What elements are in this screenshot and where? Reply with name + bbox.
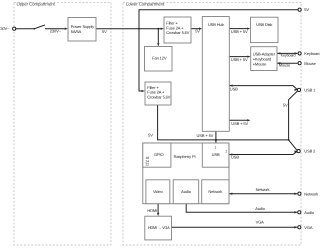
svg-text:USB + 5V: USB + 5V xyxy=(197,133,214,138)
svg-text:USB + 5V: USB + 5V xyxy=(231,57,248,62)
svg-text:Crowbar 5.6V: Crowbar 5.6V xyxy=(166,30,189,35)
svg-text:HDMI: HDMI xyxy=(147,208,157,213)
svg-text:Audio: Audio xyxy=(181,189,192,194)
svg-text:Raspberry Pi: Raspberry Pi xyxy=(174,154,196,159)
svg-text:Network: Network xyxy=(208,189,222,194)
svg-text:USB Hub: USB Hub xyxy=(208,22,225,27)
svg-text:Audio: Audio xyxy=(304,210,315,215)
svg-text:5V: 5V xyxy=(283,103,288,108)
svg-text:5V: 5V xyxy=(102,29,107,34)
svg-text:USB + 5V: USB + 5V xyxy=(231,121,248,126)
svg-text:USB: USB xyxy=(230,86,238,91)
svg-text:5V: 5V xyxy=(195,29,200,34)
svg-text:22: 22 xyxy=(146,162,150,166)
svg-text:Lower Compartment: Lower Compartment xyxy=(126,1,165,6)
svg-text:Network: Network xyxy=(256,187,270,192)
svg-text:USB Disk: USB Disk xyxy=(256,22,272,27)
svg-text:USB + 5V: USB + 5V xyxy=(231,29,248,34)
svg-text:USB: USB xyxy=(212,152,220,157)
svg-text:230V~: 230V~ xyxy=(0,26,10,31)
svg-text:Crowbar 5.6V: Crowbar 5.6V xyxy=(147,95,170,100)
svg-text:Keyboard: Keyboard xyxy=(281,53,296,58)
svg-text:2: 2 xyxy=(225,149,227,153)
svg-text:USB: USB xyxy=(231,155,239,160)
svg-text:5V: 5V xyxy=(304,7,309,12)
svg-text:USB 2: USB 2 xyxy=(304,149,316,154)
svg-text:+Mouse: +Mouse xyxy=(253,62,268,67)
svg-text:VGA: VGA xyxy=(256,220,265,225)
svg-text:VGA: VGA xyxy=(304,225,313,230)
svg-text:Network: Network xyxy=(304,191,318,196)
svg-text:GPIO: GPIO xyxy=(154,152,164,157)
svg-text:USB 1: USB 1 xyxy=(304,88,316,93)
svg-text:Video: Video xyxy=(153,189,163,194)
svg-text:HDMI → VGA: HDMI → VGA xyxy=(148,225,170,230)
svg-text:Mouse: Mouse xyxy=(279,63,291,68)
svg-text:Keyboard: Keyboard xyxy=(304,51,320,56)
svg-text:1: 1 xyxy=(215,145,217,149)
svg-text:Upper Compartment: Upper Compartment xyxy=(17,1,56,6)
svg-text:5V: 5V xyxy=(148,133,153,138)
svg-text:230V~: 230V~ xyxy=(50,28,62,33)
svg-text:Mouse: Mouse xyxy=(304,61,316,66)
svg-text:Fan 12V: Fan 12V xyxy=(152,56,167,61)
svg-text:5A/5A: 5A/5A xyxy=(71,29,82,34)
svg-text:Audio: Audio xyxy=(255,206,266,211)
